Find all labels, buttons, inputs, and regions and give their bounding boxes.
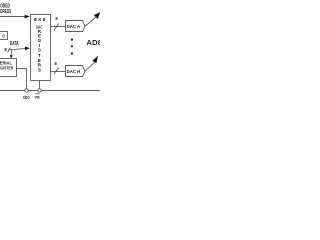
node bus slash DAC A	[54, 24, 59, 31]
svg-text:REGISTER: REGISTER	[0, 65, 14, 70]
node data bus arrowhead	[25, 47, 30, 51]
svg-text:8 X 8: 8 X 8	[34, 17, 46, 23]
wire decoded address line	[0, 16, 25, 18]
svg-text:R: R	[38, 63, 42, 69]
svg-text:T: T	[38, 53, 41, 59]
node serial input arrowhead	[10, 55, 13, 58]
wire SDO out of serial register	[17, 69, 27, 89]
node PR pin circle	[38, 89, 41, 92]
svg-text:PR: PR	[35, 95, 39, 100]
node SDO pin circle	[25, 89, 28, 92]
node ellipsis dots	[71, 39, 73, 41]
wire bus to DAC A	[51, 26, 66, 28]
wire data bus line	[9, 49, 26, 50]
node vertical label REGISTERS	[38, 29, 42, 74]
logic box C (cut at left edge)	[0, 32, 8, 40]
svg-text:DAC H: DAC H	[67, 69, 81, 74]
wire DAC A output diagonal	[85, 17, 96, 26]
wire serial input drop	[10, 49, 12, 56]
svg-text:ADDRESS: ADDRESS	[0, 9, 12, 15]
wire bus to DAC H	[51, 71, 66, 73]
node DECODED ADDRESS label	[0, 4, 12, 15]
svg-text:DAC A: DAC A	[67, 24, 81, 29]
wire DAC H output diagonal	[85, 62, 95, 71]
svg-text:SDO: SDO	[23, 95, 31, 100]
node DAC A output arrowhead	[94, 12, 100, 19]
dac U4 DAC H symbol	[66, 66, 86, 77]
wire bottom rail	[0, 90, 100, 92]
register U1 box 8x8 DAC REGISTERS	[31, 15, 51, 81]
svg-text:AD88: AD88	[86, 38, 100, 47]
wire PR stem from DAC register bottom	[39, 81, 41, 89]
node DAC H output arrowhead	[92, 56, 98, 64]
node decoded address arrowhead	[25, 15, 30, 19]
dac U3 DAC A symbol	[66, 21, 86, 32]
svg-text:C: C	[2, 34, 5, 39]
register U2 box SERIAL REGISTER (cut at left edge)	[0, 59, 17, 77]
svg-text:R: R	[38, 29, 42, 35]
svg-text:G: G	[38, 38, 42, 44]
node bus slash DAC H	[54, 68, 59, 74]
node data bus width slash	[8, 48, 11, 53]
svg-text:DATA: DATA	[10, 41, 19, 47]
